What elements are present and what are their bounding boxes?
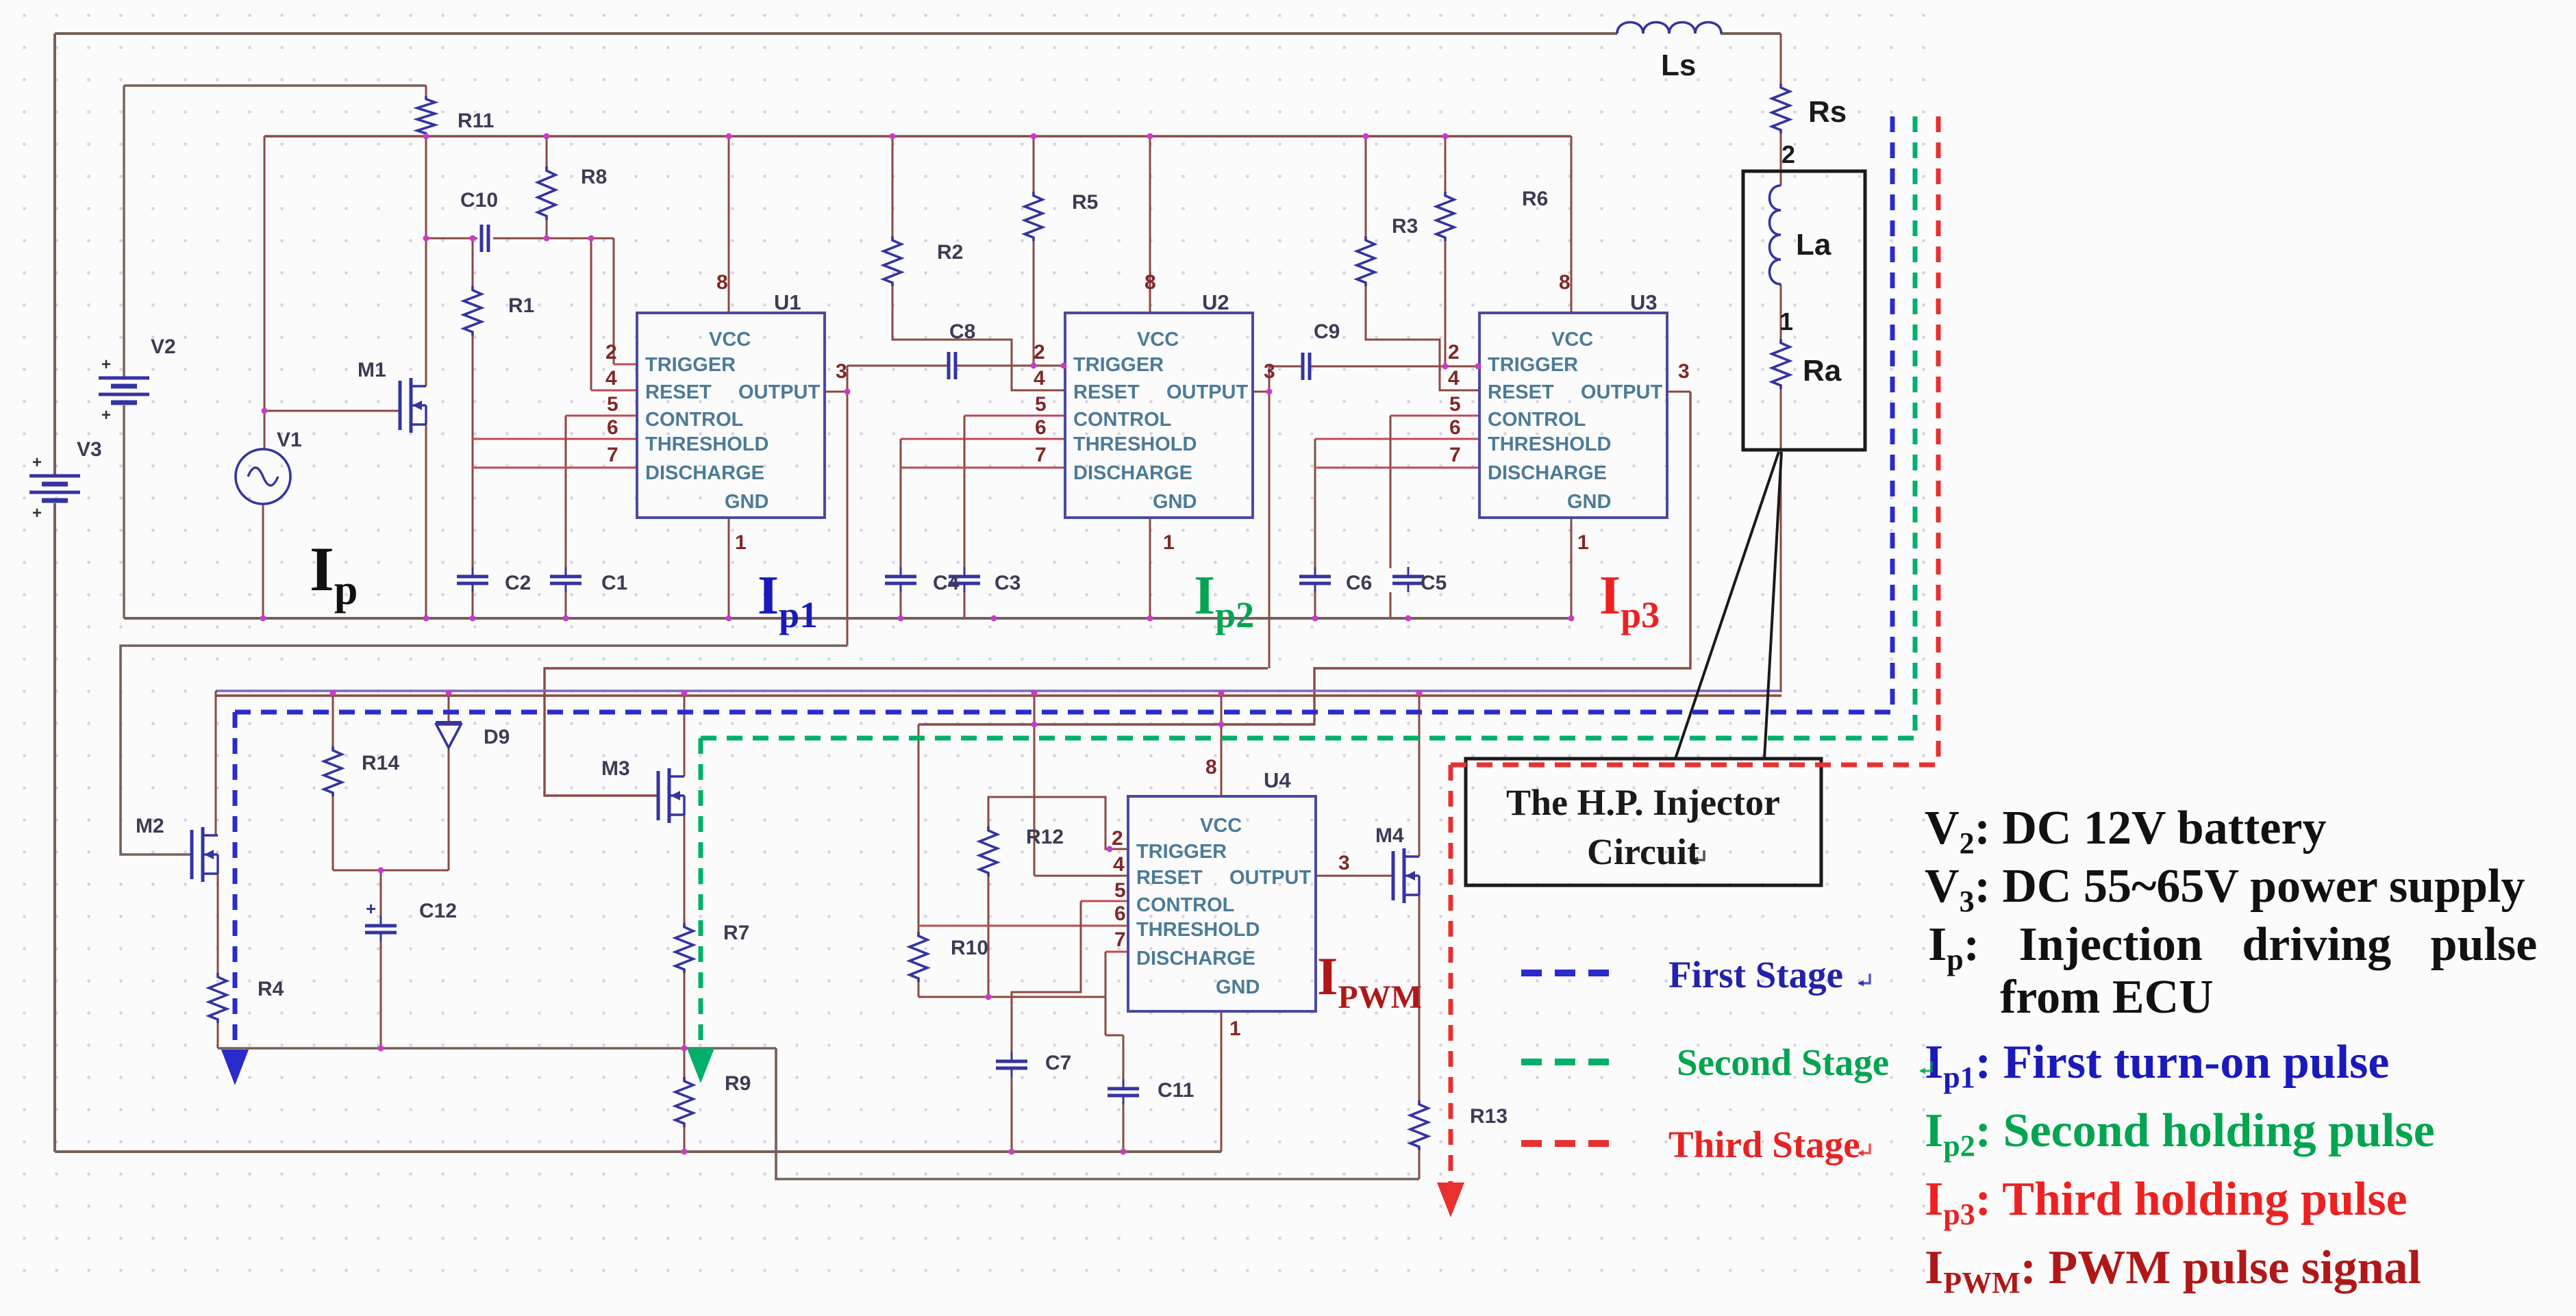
svg-text:3: 3: [1338, 852, 1350, 874]
svg-text:+: +: [32, 453, 42, 472]
svg-text:1: 1: [1163, 531, 1175, 554]
svg-text:CONTROL: CONTROL: [1136, 894, 1234, 916]
svg-text:TRIGGER: TRIGGER: [1488, 354, 1578, 376]
svg-text:OUTPUT: OUTPUT: [1581, 381, 1663, 403]
svg-text:DISCHARGE: DISCHARGE: [1136, 948, 1255, 970]
svg-text:La: La: [1796, 228, 1831, 262]
svg-text:DISCHARGE: DISCHARGE: [1488, 462, 1607, 484]
svg-text:THRESHOLD: THRESHOLD: [1136, 919, 1260, 941]
svg-text:7: 7: [1449, 444, 1461, 466]
svg-text:OUTPUT: OUTPUT: [1166, 381, 1249, 403]
svg-text:R5: R5: [1072, 191, 1098, 214]
svg-text:4: 4: [605, 367, 617, 390]
svg-text:RESET: RESET: [1073, 381, 1140, 403]
svg-text:VCC: VCC: [709, 329, 751, 351]
svg-text:4: 4: [1448, 367, 1460, 390]
svg-text:Ip2: Second holding pulse: Ip2: Second holding pulse: [1925, 1104, 2435, 1163]
svg-text:6: 6: [1114, 902, 1126, 925]
svg-text:C4: C4: [933, 572, 960, 594]
svg-text:5: 5: [1114, 879, 1126, 902]
svg-text:R7: R7: [723, 922, 749, 944]
svg-text:2: 2: [1448, 341, 1460, 364]
svg-text:GND: GND: [725, 491, 768, 513]
svg-text:C5: C5: [1421, 572, 1447, 594]
svg-text:Third Stage: Third Stage: [1668, 1124, 1860, 1165]
svg-text:R2: R2: [937, 241, 963, 264]
svg-text:First Stage: First Stage: [1668, 954, 1843, 996]
svg-text:M4: M4: [1375, 824, 1404, 847]
svg-text:8: 8: [716, 271, 728, 294]
svg-text:8: 8: [1205, 756, 1217, 779]
svg-text:V3: DC 55~65V power supply: V3: DC 55~65V power supply: [1925, 860, 2525, 918]
svg-text:GND: GND: [1216, 976, 1260, 998]
svg-text:RESET: RESET: [1136, 867, 1203, 889]
svg-text:5: 5: [607, 393, 618, 416]
svg-text:OUTPUT: OUTPUT: [1229, 867, 1312, 889]
svg-text:U3: U3: [1630, 290, 1658, 314]
svg-text:U4: U4: [1264, 768, 1291, 792]
svg-text:R11: R11: [458, 110, 494, 132]
svg-text:3: 3: [836, 360, 847, 383]
svg-text:U2: U2: [1202, 290, 1229, 314]
svg-text:1: 1: [735, 531, 747, 554]
svg-text:THRESHOLD: THRESHOLD: [1488, 433, 1611, 455]
svg-text:3: 3: [1678, 360, 1690, 383]
svg-text:R4: R4: [258, 978, 284, 1000]
svg-text:C1: C1: [601, 572, 627, 594]
svg-text:TRIGGER: TRIGGER: [645, 354, 736, 376]
svg-text:1: 1: [1779, 307, 1793, 336]
svg-text:RESET: RESET: [1488, 381, 1554, 403]
svg-text:1: 1: [1577, 531, 1589, 554]
svg-text:VCC: VCC: [1200, 815, 1242, 837]
svg-text:GND: GND: [1153, 491, 1197, 513]
svg-text:R8: R8: [581, 166, 607, 188]
svg-text:+: +: [101, 355, 111, 374]
svg-text:RESET: RESET: [645, 381, 712, 403]
svg-text:TRIGGER: TRIGGER: [1073, 354, 1164, 376]
svg-text:C6: C6: [1346, 572, 1372, 594]
svg-text:2: 2: [1034, 341, 1045, 364]
svg-text:DISCHARGE: DISCHARGE: [1073, 462, 1192, 484]
svg-text:C9: C9: [1314, 320, 1340, 343]
svg-text:2: 2: [605, 341, 617, 364]
svg-text:THRESHOLD: THRESHOLD: [1073, 433, 1197, 455]
svg-text:R14: R14: [362, 752, 399, 774]
svg-text:DISCHARGE: DISCHARGE: [645, 462, 764, 484]
svg-text:The H.P. Injector: The H.P. Injector: [1506, 782, 1780, 823]
svg-text:C3: C3: [995, 572, 1021, 594]
svg-text:6: 6: [1035, 416, 1047, 439]
svg-text:R9: R9: [725, 1072, 751, 1095]
svg-text:7: 7: [1114, 928, 1126, 951]
svg-text:4: 4: [1113, 853, 1125, 876]
svg-text:M2: M2: [136, 815, 164, 837]
svg-text:R10: R10: [951, 937, 988, 959]
svg-text:5: 5: [1035, 393, 1047, 416]
svg-text:M1: M1: [358, 359, 386, 381]
svg-text:3: 3: [1264, 360, 1275, 383]
svg-text:Rs: Rs: [1808, 95, 1847, 129]
svg-text:R1: R1: [508, 294, 534, 317]
svg-text:VCC: VCC: [1551, 329, 1593, 351]
svg-text:2: 2: [1112, 827, 1123, 850]
svg-text:Second Stage: Second Stage: [1677, 1041, 1889, 1083]
svg-text:6: 6: [607, 416, 618, 439]
svg-text:V1: V1: [277, 429, 302, 451]
svg-text:Ip1: First turn-on pulse: Ip1: First turn-on pulse: [1925, 1036, 2389, 1094]
svg-text:8: 8: [1559, 271, 1571, 294]
svg-text:C7: C7: [1045, 1052, 1071, 1074]
svg-text:V2: V2: [151, 336, 176, 358]
svg-text:M3: M3: [601, 757, 630, 780]
svg-text:+: +: [32, 504, 42, 522]
svg-text:TRIGGER: TRIGGER: [1136, 841, 1227, 863]
svg-text:Circuit: Circuit: [1587, 831, 1699, 872]
svg-text:U1: U1: [774, 290, 801, 314]
svg-text:1: 1: [1229, 1017, 1241, 1040]
svg-text:CONTROL: CONTROL: [1488, 409, 1586, 431]
svg-text:C8: C8: [949, 320, 975, 343]
svg-text:R3: R3: [1392, 215, 1418, 238]
svg-text:8: 8: [1145, 271, 1156, 294]
svg-text:THRESHOLD: THRESHOLD: [645, 433, 768, 455]
svg-text:OUTPUT: OUTPUT: [738, 381, 821, 403]
svg-text:VCC: VCC: [1137, 329, 1179, 351]
svg-text:+: +: [101, 406, 111, 425]
svg-text:C10: C10: [460, 189, 498, 212]
svg-text:4: 4: [1034, 367, 1045, 390]
svg-text:R13: R13: [1470, 1105, 1508, 1128]
svg-text:CONTROL: CONTROL: [1073, 409, 1171, 431]
svg-text:+: +: [366, 898, 376, 919]
svg-text:GND: GND: [1567, 491, 1611, 513]
svg-text:Ip3: Third holding pulse: Ip3: Third holding pulse: [1925, 1173, 2408, 1231]
svg-text:from ECU: from ECU: [2000, 971, 2214, 1024]
svg-text:R6: R6: [1522, 188, 1548, 210]
svg-text:D9: D9: [484, 726, 510, 748]
svg-text:V3: V3: [77, 438, 102, 461]
svg-text:Ls: Ls: [1661, 49, 1696, 82]
svg-text:7: 7: [607, 444, 618, 466]
svg-text:C2: C2: [505, 572, 531, 594]
svg-text:5: 5: [1449, 393, 1461, 416]
svg-text:2: 2: [1781, 140, 1795, 168]
svg-text:V2: DC 12V battery: V2: DC 12V battery: [1925, 802, 2326, 860]
svg-text:C11: C11: [1158, 1079, 1194, 1102]
svg-text:Ra: Ra: [1803, 354, 1842, 388]
svg-text:R12: R12: [1026, 826, 1064, 848]
svg-text:CONTROL: CONTROL: [645, 409, 743, 431]
svg-text:6: 6: [1449, 416, 1461, 439]
svg-text:7: 7: [1035, 444, 1047, 466]
svg-text:C12: C12: [419, 900, 457, 922]
svg-text:Ip: Injection driving pulse: Ip: Injection driving pulse: [1928, 918, 2537, 976]
